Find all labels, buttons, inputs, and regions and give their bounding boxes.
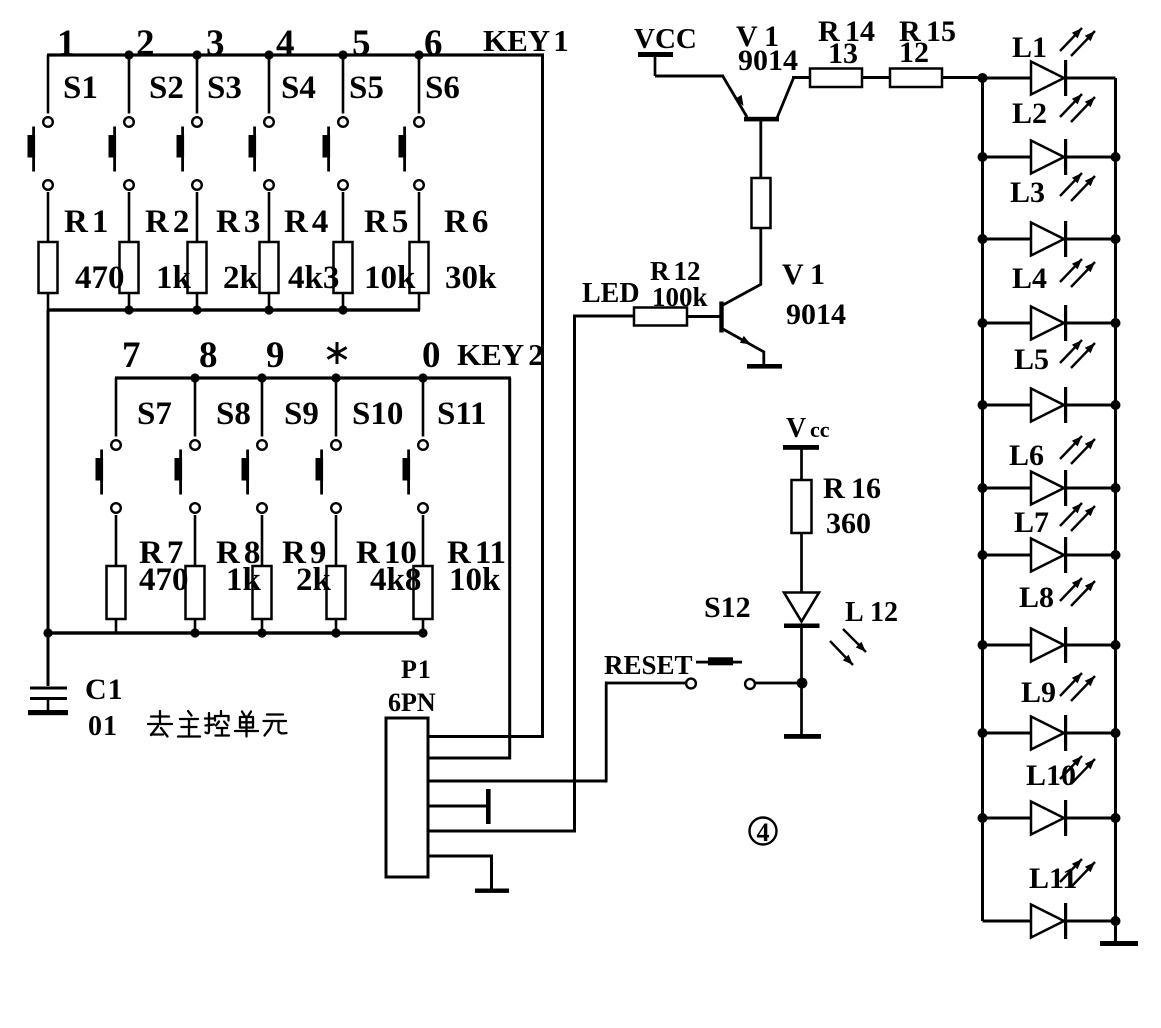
svg-text:P1: P1 [401, 655, 432, 684]
svg-text:2k: 2k [296, 562, 332, 598]
svg-text:470: 470 [139, 562, 189, 598]
svg-text:V: V [786, 413, 806, 444]
svg-text:4: 4 [757, 818, 770, 847]
svg-text:6: 6 [424, 23, 443, 64]
svg-text:L1: L1 [1012, 31, 1047, 64]
svg-text:0: 0 [422, 335, 441, 376]
svg-text:S2: S2 [149, 70, 184, 106]
svg-text:R6: R6 [444, 204, 488, 240]
svg-text:L: L [845, 597, 864, 628]
svg-text:1k: 1k [156, 260, 192, 296]
svg-text:8: 8 [199, 335, 218, 376]
svg-text:S11: S11 [437, 396, 487, 432]
svg-text:VCC: VCC [634, 23, 697, 55]
svg-text:6PN: 6PN [388, 688, 436, 717]
svg-text:9014: 9014 [786, 298, 846, 331]
svg-text:V: V [782, 258, 804, 291]
svg-text:L8: L8 [1019, 581, 1054, 614]
svg-text:3: 3 [206, 23, 225, 64]
svg-text:16: 16 [851, 472, 881, 505]
svg-text:L9: L9 [1021, 676, 1056, 709]
svg-text:10k: 10k [449, 562, 501, 598]
svg-text:L7: L7 [1014, 506, 1049, 539]
svg-text:01: 01 [88, 711, 118, 742]
svg-text:12: 12 [870, 597, 898, 628]
svg-text:S12: S12 [704, 591, 751, 624]
svg-text:S8: S8 [216, 396, 251, 432]
svg-text:5: 5 [352, 23, 371, 64]
svg-text:R: R [823, 472, 845, 505]
svg-text:9: 9 [266, 335, 285, 376]
svg-text:1k: 1k [226, 562, 262, 598]
svg-text:R3: R3 [216, 204, 260, 240]
svg-text:S5: S5 [349, 70, 384, 106]
svg-text:4: 4 [276, 23, 295, 64]
svg-text:S9: S9 [284, 396, 319, 432]
svg-text:L5: L5 [1014, 343, 1049, 376]
svg-text:S7: S7 [137, 396, 172, 432]
svg-text:R2: R2 [145, 204, 189, 240]
svg-text:S4: S4 [281, 70, 316, 106]
svg-text:LED: LED [582, 278, 640, 309]
svg-text:15: 15 [926, 15, 956, 48]
svg-text:R1: R1 [64, 204, 108, 240]
svg-text:30k: 30k [445, 260, 497, 296]
svg-text:S10: S10 [352, 396, 403, 432]
svg-text:2: 2 [136, 23, 155, 64]
svg-text:2k: 2k [223, 260, 259, 296]
svg-text:R4: R4 [284, 204, 328, 240]
svg-text:C1: C1 [85, 673, 124, 706]
svg-text:S6: S6 [425, 70, 460, 106]
svg-text:4k3: 4k3 [288, 260, 339, 296]
svg-text:1: 1 [57, 23, 76, 64]
svg-text:9014: 9014 [738, 44, 798, 77]
svg-text:12: 12 [899, 36, 929, 69]
svg-text:L2: L2 [1012, 97, 1047, 130]
svg-text:L3: L3 [1010, 176, 1045, 209]
svg-text:KEY2: KEY2 [457, 337, 544, 372]
svg-text:10k: 10k [364, 260, 416, 296]
svg-text:13: 13 [828, 37, 858, 70]
svg-text:cc: cc [810, 417, 830, 442]
svg-text:7: 7 [122, 335, 141, 376]
svg-text:1: 1 [810, 258, 825, 291]
svg-text:L11: L11 [1029, 862, 1077, 895]
svg-text:S1: S1 [63, 70, 98, 106]
svg-text:S3: S3 [207, 70, 242, 106]
svg-text:4k8: 4k8 [370, 562, 421, 598]
svg-text:L4: L4 [1012, 262, 1047, 295]
svg-text:L10: L10 [1026, 759, 1076, 792]
svg-text:L6: L6 [1009, 439, 1044, 472]
svg-text:360: 360 [826, 507, 871, 540]
svg-text:KEY1: KEY1 [483, 23, 569, 58]
svg-text:RESET: RESET [604, 650, 693, 680]
svg-text:R5: R5 [364, 204, 408, 240]
svg-text:470: 470 [75, 260, 125, 296]
